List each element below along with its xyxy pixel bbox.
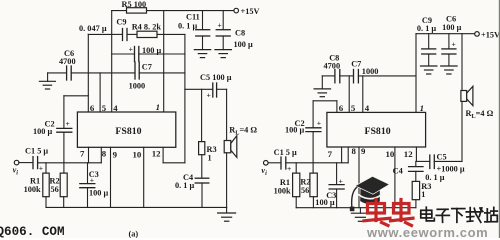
resistor R2: [60, 173, 67, 197]
watermark graduation cap board: [355, 176, 389, 194]
wire pin10 vertical (right): [394, 147, 396, 208]
wire pin6 vertical: [87, 34, 89, 112]
resistor R1 (right): [293, 173, 300, 197]
wire pin5 vertical: [99, 73, 101, 112]
capacitor C2 100u (right): [306, 127, 321, 129]
svg-text:56: 56: [51, 185, 59, 194]
watermark graduation cap crown: [360, 186, 380, 204]
capacitor C1 5u (right): [280, 157, 282, 169]
terminal +15V (left circuit): [234, 8, 239, 13]
WATERMARK: [350, 176, 498, 240]
svg-text:C5 100 μ: C5 100 μ: [200, 73, 232, 82]
svg-text:C1 5 μ: C1 5 μ: [274, 148, 297, 157]
svg-text:7: 7: [328, 149, 333, 159]
RIGHT CIRCUIT (b): [264, 32, 480, 222]
wire C3 to rail (right): [336, 189, 338, 208]
terminal vi input (left): [14, 160, 19, 165]
svg-text:12: 12: [404, 149, 413, 159]
svg-text:R5 100: R5 100: [122, 0, 147, 9]
resistor R4: [137, 31, 157, 37]
svg-text:100 μ: 100 μ: [234, 40, 254, 49]
wire input to C1 (right): [268, 162, 281, 164]
capacitor C3 stem (right): [336, 163, 338, 185]
capacitor C4 stem (right): [415, 161, 417, 166]
svg-text:1000: 1000: [129, 82, 146, 91]
svg-text:vi: vi: [13, 166, 19, 177]
resistor R2 (right): [310, 173, 317, 197]
svg-text:www.eeworm.com: www.eeworm.com: [366, 225, 488, 238]
wire pin8 vertical: [100, 147, 102, 163]
glyph zi: [437, 208, 448, 210]
svg-text:100k: 100k: [24, 185, 41, 194]
svg-text:1: 1: [421, 190, 425, 199]
svg-text:Q606. COM: Q606. COM: [0, 225, 65, 238]
svg-text:+: +: [287, 164, 291, 173]
wire pin12 to C5 (right): [416, 160, 429, 162]
svg-text:+15V: +15V: [481, 31, 500, 40]
wire bottom rail (left circuit): [46, 206, 227, 208]
svg-text:C11: C11: [186, 13, 200, 22]
svg-text:0. 1 μ: 0. 1 μ: [175, 181, 195, 190]
svg-text:100 μ: 100 μ: [89, 188, 109, 197]
wire pin6 vertical (right): [336, 101, 338, 113]
watermark red character chong 2: [391, 200, 414, 226]
svg-text:0. 1 μ: 0. 1 μ: [178, 22, 198, 31]
svg-text:100 μ: 100 μ: [442, 23, 462, 32]
glyph zhan zhan part: [493, 207, 495, 214]
wire pin4 vertical (node from rail down to pin 4): [111, 11, 113, 112]
wire speaker line upper: [226, 89, 228, 140]
wire pin7 vertical (right): [341, 147, 343, 163]
resistor R3 top lead: [201, 89, 203, 141]
wire speaker line upper (right): [461, 34, 463, 91]
wire pin9 vertical (right): [358, 147, 360, 208]
capacitor C9 stem (right): [428, 34, 430, 49]
svg-text:+15V: +15V: [241, 7, 260, 16]
wire speaker line lower (right): [461, 101, 463, 161]
watermark graduation cap white swoosh: [359, 195, 381, 199]
wire C5 to speaker line (right): [434, 160, 462, 162]
wire bottom rail (right circuit): [296, 207, 416, 209]
svg-text:5: 5: [102, 103, 107, 113]
svg-text:0. 1 μ: 0. 1 μ: [425, 173, 445, 182]
resistor R5: [127, 8, 147, 13]
wire pin1 vertical / +15V feed (right): [415, 34, 417, 113]
ground (C9 right): [428, 54, 430, 66]
wire ground to C8 (right): [322, 75, 334, 77]
capacitor C1 5u: [32, 157, 34, 169]
wire pin4 vertical (right): [362, 76, 364, 113]
ground (right circuit main): [359, 208, 361, 214]
resistor R3: [199, 142, 205, 155]
wire bootstrap vertical (right ladder rail): [184, 34, 186, 162]
svg-text:+: +: [66, 119, 70, 128]
wire input to C1: [19, 162, 33, 164]
svg-text:4700: 4700: [59, 57, 76, 66]
svg-text:8: 8: [352, 146, 357, 156]
capacitor C3 100u: [80, 183, 95, 185]
svg-text:12: 12: [152, 148, 161, 158]
ground (C6): [47, 73, 49, 81]
capacitor C9 0.047u: [122, 29, 124, 41]
wire R3 to C4: [201, 155, 203, 178]
svg-text:1: 1: [208, 154, 212, 163]
wire pin1 vertical (rail down to pin 1): [163, 11, 165, 112]
watermark text dianzi xiazaizhan: [421, 207, 498, 222]
capacitor C5 1000u (right): [429, 155, 431, 169]
capacitor C6 stem (right): [448, 34, 450, 49]
ground (C6 right): [448, 54, 450, 66]
scan edge artifact right border: [499, 0, 500, 238]
capacitor C4 0.1u (right): [409, 166, 423, 168]
wire 100u branch right: [139, 53, 185, 55]
capacitor C11 plates: [196, 29, 210, 31]
wire C2 stem lower (right): [312, 132, 314, 174]
capacitor C7 1000 (right): [353, 70, 355, 83]
svg-text:0. 1 μ: 0. 1 μ: [417, 24, 437, 33]
op-amp U2 FS810 (right): [327, 112, 426, 147]
terminal vi input (right): [264, 161, 269, 166]
svg-text:10: 10: [386, 149, 395, 159]
speaker RL (right circuit): [461, 91, 467, 102]
wire pin5 vertical (right): [348, 76, 350, 113]
svg-text:4: 4: [113, 103, 118, 113]
wire R3 to rail (right): [415, 200, 417, 208]
svg-text:4: 4: [365, 103, 370, 113]
wire input node horizontal: [38, 162, 102, 164]
svg-text:RL=4 Ω: RL=4 Ω: [229, 126, 257, 137]
resistor R1: [43, 173, 49, 197]
wire pin12 vertical (right): [415, 147, 417, 161]
wire 100u branch left: [112, 53, 135, 55]
ground (left circuit main): [226, 207, 228, 213]
svg-text:vi: vi: [261, 166, 267, 177]
svg-text:C7: C7: [351, 60, 361, 69]
svg-text:6: 6: [339, 103, 344, 113]
wire C9 to R4: [127, 33, 137, 35]
svg-text:6: 6: [90, 103, 95, 113]
wire pin8 vertical (right): [347, 147, 349, 163]
wire pin9 vertical: [110, 147, 112, 207]
wire C7 right: [139, 72, 185, 74]
svg-text:9: 9: [361, 146, 366, 156]
capacitor C11 0.1u stem: [202, 11, 204, 30]
capacitor C6 100u plates (right): [442, 48, 456, 50]
wire top +15V rail (right circuit): [416, 33, 475, 35]
capacitor C7 1000: [134, 62, 136, 79]
svg-text:C1 5 μ: C1 5 μ: [25, 147, 48, 156]
ground (C11): [202, 36, 204, 50]
svg-text:+1000 μ: +1000 μ: [437, 164, 465, 173]
svg-text:100k: 100k: [274, 186, 291, 195]
svg-text:C8: C8: [235, 28, 245, 37]
svg-text:R3: R3: [207, 145, 217, 154]
svg-text:7: 7: [80, 148, 85, 158]
op-amp U1 FS810 (left): [77, 112, 175, 147]
svg-text:+: +: [339, 177, 343, 186]
svg-text:100 μ: 100 μ: [33, 127, 53, 136]
wire R1 to rail: [45, 197, 47, 208]
capacitor C3 100u (right): [329, 184, 344, 186]
svg-text:(a): (a): [129, 230, 139, 238]
svg-text:4700: 4700: [324, 61, 341, 70]
glyph xia: [452, 208, 465, 210]
speaker RL (left circuit): [224, 141, 231, 153]
wire R2 to rail: [63, 197, 65, 208]
wire C9 left stub: [112, 33, 123, 35]
svg-text:100 μ: 100 μ: [315, 198, 335, 207]
wire C6 to C7: [71, 72, 135, 74]
svg-text:FS810: FS810: [115, 126, 141, 137]
wire pin6 branch horizontal (right): [313, 100, 337, 102]
svg-text:56: 56: [301, 186, 309, 195]
glyph zai: [466, 211, 481, 213]
svg-text:1: 1: [156, 102, 160, 112]
terminal +15V (right circuit): [475, 32, 480, 37]
capacitor C8 plates: [216, 29, 230, 31]
wire input node horizontal (right): [286, 162, 348, 164]
wire top +15V rail left segment: [112, 10, 127, 12]
wire pin7 vertical: [88, 147, 90, 163]
svg-text:+: +: [129, 45, 133, 54]
wire ground to C6: [48, 72, 67, 74]
watermark graduation cap tassel knob: [350, 207, 355, 212]
wire output node to C5: [185, 88, 213, 90]
svg-text:1: 1: [420, 103, 424, 113]
resistor R3 (right): [412, 181, 419, 199]
svg-text:+: +: [207, 91, 211, 100]
capacitor C2 100u: [57, 127, 72, 129]
svg-text:5: 5: [351, 103, 356, 113]
wire C2 top horizontal: [64, 95, 88, 97]
wire C4 to bottom rail: [201, 183, 203, 207]
capacitor C9 0.1u plates (right): [422, 48, 436, 50]
svg-text:C7: C7: [142, 62, 152, 71]
resistor R1 top stub: [45, 163, 47, 173]
wire R2 to rail (right): [312, 197, 314, 208]
svg-text:100 μ: 100 μ: [285, 126, 305, 135]
svg-text:9: 9: [113, 150, 118, 160]
wire R1 to rail (right): [295, 197, 297, 208]
svg-text:+: +: [317, 119, 321, 128]
capacitor C8 4700 (right): [334, 70, 336, 83]
ground (C8 4700 right): [321, 76, 323, 89]
capacitor C5 100u: [212, 83, 214, 97]
wire C8 to C7 (right): [340, 75, 354, 77]
capacitor C3 stem: [87, 163, 89, 184]
svg-text:+: +: [452, 40, 456, 49]
wire C4 to R3 (right): [415, 171, 417, 181]
ground (C8): [222, 36, 224, 50]
wire C2 stem upper: [63, 96, 65, 128]
svg-text:+: +: [39, 164, 43, 173]
capacitor C4 0.1u: [195, 177, 209, 179]
wire pin10 vertical: [143, 147, 145, 207]
capacitor C8 100u stem: [222, 11, 224, 30]
wire C5 to speaker line: [217, 88, 227, 90]
svg-text:100 μ: 100 μ: [142, 46, 162, 55]
wire C7 to pin1 line (right): [358, 75, 416, 77]
svg-text:+: +: [218, 21, 222, 30]
svg-text:C9: C9: [116, 18, 126, 27]
wire pin12 horizontal to output ladder: [163, 162, 185, 164]
wire speaker line lower: [226, 153, 228, 208]
svg-text:1000: 1000: [362, 67, 379, 76]
wire pin6 branch horizontal: [88, 33, 111, 35]
resistor R1 top stub (right): [295, 163, 297, 173]
svg-text:8: 8: [102, 148, 107, 158]
watermark graduation cap tassel: [352, 187, 357, 206]
glyph zhan li part: [486, 209, 488, 222]
svg-text:FS810: FS810: [365, 126, 391, 137]
capacitor C6 4700: [66, 66, 68, 80]
svg-text:+: +: [90, 176, 94, 185]
wire pin12 vertical: [162, 147, 164, 163]
wire top +15V rail right segment: [147, 10, 234, 12]
watermark red character chong 1: [364, 200, 390, 226]
wire C2 stem lower to input node: [63, 132, 65, 173]
svg-text:0. 047 μ: 0. 047 μ: [79, 24, 107, 33]
svg-text:RL=4 Ω: RL=4 Ω: [466, 109, 494, 120]
svg-text:10: 10: [133, 150, 142, 160]
capacitor 100u bootstrap: [134, 47, 136, 62]
wire C3 to rail: [87, 188, 89, 208]
wire R4 to bootstrap rail: [157, 33, 185, 35]
svg-text:C5: C5: [437, 153, 447, 162]
svg-text:C4: C4: [393, 166, 403, 175]
svg-text:R4 8. 2k: R4 8. 2k: [132, 23, 162, 32]
glyph dian: [421, 210, 432, 218]
wire C2 stem upper (right): [312, 101, 314, 128]
